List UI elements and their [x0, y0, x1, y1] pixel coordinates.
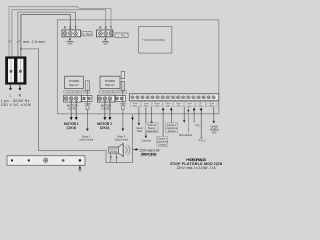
C TR2 box [115, 33, 128, 38]
svg-text:L: L [9, 93, 11, 97]
PTC2 wire [200, 110, 202, 138]
pompa2 wire and box [170, 110, 172, 123]
terminal block 2 [97, 26, 113, 37]
relay1 side box [86, 81, 90, 90]
svg-text:Ayari: Ayari [210, 104, 214, 107]
contactor label strip 2 [99, 91, 127, 93]
svg-text:C TR2: C TR2 [118, 34, 127, 38]
enclosure big box [57, 20, 218, 114]
siren output annotation [133, 148, 136, 150]
cable size marks [8, 40, 12, 42]
short output wire [183, 107, 185, 121]
circuit breaker 2P [5, 56, 26, 84]
relay2 side boxes [121, 71, 125, 78]
svg-text:Sens.: Sens. [144, 105, 149, 107]
svg-text:SİREN ÇIKIŞI: SİREN ÇIKIŞI [141, 153, 157, 157]
svg-text:Giris: Giris [188, 104, 192, 107]
svg-text:Çalış Kontrol: Çalış Kontrol [79, 139, 93, 142]
svg-text:Giris: Giris [199, 104, 203, 107]
pompa1 wire and box [162, 110, 164, 136]
svg-text:Giris: Giris [155, 104, 159, 107]
motor1 control wire [86, 90, 88, 128]
svg-text:min. 2,5 mm²: min. 2,5 mm² [23, 40, 46, 44]
horn siren [109, 143, 130, 162]
siren wire arrow [131, 118, 134, 121]
solenoid wire [145, 107, 147, 137]
svg-text:Beyin Merkezi: Beyin Merkezi [179, 134, 192, 137]
svg-text:T: T [75, 26, 77, 30]
svg-text:Kontrol: Kontrol [158, 144, 166, 147]
svg-text:ÇIKIŞ: ÇIKIŞ [67, 126, 77, 130]
svg-text:Sens.: Sens. [133, 105, 138, 107]
PTC1 wire [193, 110, 195, 123]
junction dot on W4 [20, 48, 22, 50]
wire W1 pole1 to block2 T [9, 7, 111, 57]
svg-text:Kart: Kart [177, 104, 181, 107]
svg-text:RELAY: RELAY [105, 83, 115, 87]
svg-text:PTC 2: PTC 2 [199, 139, 206, 142]
wire W2 pole1 to block2 S [12, 10, 106, 57]
svg-text:Çalış Kontrol: Çalış Kontrol [114, 139, 128, 142]
C TR1 box [82, 32, 92, 36]
power relay 1 [65, 76, 84, 88]
L N input dots [10, 85, 12, 89]
svg-text:Kontrol: Kontrol [168, 130, 176, 133]
svg-text:Cikis: Cikis [166, 105, 170, 107]
motor terminal row 1 [64, 95, 92, 102]
svg-text:C TR1: C TR1 [83, 32, 92, 36]
svg-text:220 V / max. 2 x 2.2 kW - 17 A: 220 V / max. 2 x 2.2 kW - 17 A [177, 166, 217, 170]
beyin wire [188, 110, 190, 112]
genel hata wire [138, 107, 140, 124]
motor terminal row 2 [97, 95, 125, 102]
strip ground drop [79, 165, 81, 169]
wire W4 pole2 to block1 S [21, 15, 70, 57]
svg-text:Solenoid: Solenoid [142, 140, 152, 143]
motor2 output wires [104, 101, 106, 118]
horn stubs [110, 153, 112, 163]
motor2 control wire [122, 90, 124, 128]
svg-text:S: S [105, 26, 107, 30]
ground cluster block2 [102, 37, 109, 45]
svg-text:Transmitter: Transmitter [146, 130, 157, 133]
ground cluster block1 [67, 37, 74, 45]
svg-text:T: T [110, 26, 112, 30]
svg-text:230 V AC ±10%: 230 V AC ±10% [1, 103, 31, 107]
svg-text:ÇIKIŞ: ÇIKIŞ [100, 126, 110, 130]
KBA80 wire [213, 107, 215, 122]
svg-text:RELAY: RELAY [69, 83, 79, 87]
4-20mA transmitter box [151, 107, 153, 122]
transformer box [139, 27, 172, 54]
strip label boxes [131, 102, 218, 107]
contactor label strip 1 [64, 91, 90, 93]
terminal block 1 [62, 26, 81, 37]
svg-text:S: S [69, 26, 71, 30]
long terminal strip [129, 94, 219, 101]
svg-text:TRANSFORMER: TRANSFORMER [142, 38, 165, 42]
svg-text:KONTAKTOR: KONTAKTOR [103, 91, 124, 94]
svg-text:APC: APC [212, 131, 217, 134]
wire W5 siren feed from W4 down to horn loop [21, 49, 133, 163]
svg-text:Hata: Hata [137, 130, 143, 133]
svg-text:KONTAKTOR: KONTAKTOR [67, 91, 88, 94]
motor1 output wires [70, 101, 72, 118]
power relay 2 [100, 76, 120, 88]
bottom terminal strip [7, 156, 85, 166]
wire W3 pole2 to block1 T [18, 12, 76, 56]
